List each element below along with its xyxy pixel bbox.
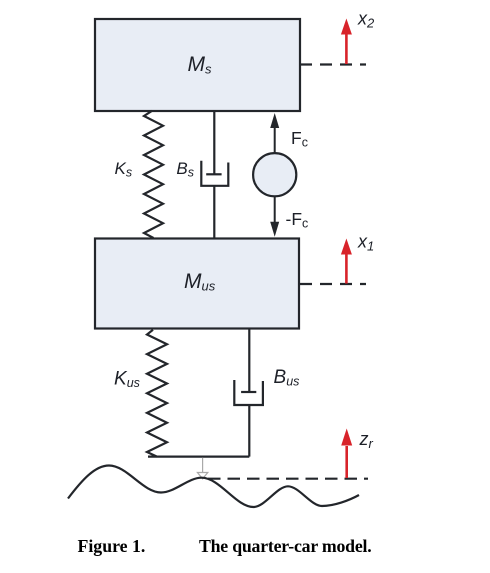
svg-text:x2: x2 [357,9,375,31]
svg-text:Bus: Bus [274,367,300,389]
svg-text:zr: zr [359,429,374,451]
svg-text:-Fc: -Fc [286,209,309,231]
svg-text:x1: x1 [357,232,374,254]
svg-text:Fc: Fc [291,128,308,150]
svg-text:Ks: Ks [115,159,133,180]
svg-text:The quarter-car model.: The quarter-car model. [199,536,371,556]
svg-text:Bs: Bs [176,159,194,180]
svg-text:Kus: Kus [114,369,140,391]
svg-text:Figure 1.: Figure 1. [78,536,146,556]
